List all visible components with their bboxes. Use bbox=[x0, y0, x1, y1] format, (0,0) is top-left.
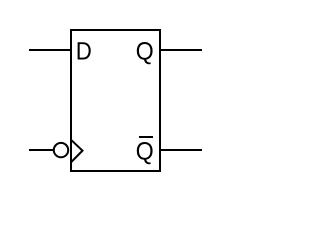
flip-flop body U1 bbox=[71, 30, 160, 171]
wire Q output bbox=[160, 49, 202, 51]
clock edge triangle bbox=[71, 140, 83, 163]
inversion bubble on CLK bbox=[54, 143, 68, 157]
pin label Qbar bbox=[137, 142, 153, 164]
overbar of Qbar bbox=[139, 136, 153, 138]
wire CLK input bbox=[29, 149, 53, 151]
pin label Q bbox=[137, 42, 153, 64]
wire Qbar output bbox=[160, 149, 202, 151]
wire D input bbox=[29, 49, 71, 51]
pin label D bbox=[78, 42, 91, 59]
